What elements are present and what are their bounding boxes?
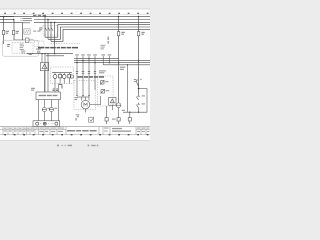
label sensor1 [105, 81, 108, 82]
node hD 127 [127, 64, 128, 65]
heater dashed enclosure [74, 81, 96, 110]
frame bottom column ticks [4, 134, 148, 135]
control unit text [39, 95, 58, 96]
coil group 2 [59, 74, 62, 78]
node feed b [44, 53, 45, 54]
label loop bottom [122, 110, 125, 111]
node s6 [109, 62, 110, 63]
switch S1 [136, 80, 139, 87]
node L1 tap [3, 16, 5, 18]
wire motor PE loop [90, 96, 101, 105]
wire N incoming [0, 21, 23, 23]
terminal strip dashes [40, 123, 54, 125]
wire T2 tail [118, 121, 120, 124]
terminal X2-1 [36, 122, 39, 125]
terminal T3 [128, 118, 131, 121]
label hD corner [120, 67, 125, 70]
control bus hD [103, 64, 150, 66]
wire Q1 pole3 [50, 22, 52, 41]
revision marks [75, 114, 79, 120]
label w1 [75, 54, 79, 55]
label w4 [93, 54, 97, 55]
motor bottom stub [85, 109, 87, 113]
breaker Q1 box [43, 26, 58, 35]
label s5 [101, 54, 105, 55]
lamp H1 tick [42, 109, 46, 111]
label F1 [6, 31, 9, 34]
bus L1 [0, 15, 150, 17]
wire H2 out [50, 112, 52, 121]
wire X1 out2 [43, 100, 45, 108]
terminal X2-2 [43, 122, 46, 125]
page sheet [0, 9, 150, 141]
label s6 [108, 54, 112, 55]
node Q1 L2 [47, 19, 49, 21]
wire Q1 pole1 [44, 16, 46, 37]
wire L1 incoming [0, 16, 14, 18]
node S3 loop [138, 112, 139, 113]
fuse F4 [137, 32, 139, 36]
bus L2 [34, 19, 150, 21]
footer viewer text [57, 145, 98, 147]
lamp H2 [49, 108, 53, 112]
wire T3 tail [129, 121, 131, 124]
node w3 [88, 58, 89, 59]
connector row motor [76, 95, 90, 97]
coil out corner [59, 85, 62, 89]
node feed c [47, 53, 48, 54]
node feed a [41, 53, 42, 54]
drawing frame top border [0, 13, 150, 15]
supply junction enclosure [3, 40, 39, 56]
motor M1 glyph [84, 103, 87, 106]
cable ticks feed [21, 51, 26, 54]
motor lead c [88, 97, 90, 101]
wire loop right [146, 89, 148, 113]
lamp H2 tick [49, 109, 53, 111]
coil group 5 [70, 75, 73, 78]
label Q1 [39, 27, 42, 30]
coil group 3 [62, 75, 66, 79]
label sensors above [99, 70, 106, 73]
connector pins w4 [94, 71, 96, 73]
node Q1 L3 [50, 22, 52, 24]
wire supply horizontal [14, 39, 26, 41]
wire feed lower [27, 53, 74, 55]
wire b drop [44, 54, 46, 92]
sensor sym2 [101, 89, 105, 94]
coil group 1 leads [54, 73, 56, 84]
label S3 [142, 103, 145, 104]
title cells small text [4, 128, 64, 132]
node w2 [82, 60, 83, 61]
node N join [54, 53, 55, 54]
contact S2 [136, 95, 139, 100]
wire drop to F2 [13, 20, 15, 41]
label T2 [112, 119, 116, 120]
legend notes list [21, 18, 33, 23]
coil group 4 [68, 74, 71, 78]
background viewer band [0, 0, 150, 150]
warning triangle [42, 64, 47, 69]
label X1 [31, 88, 35, 91]
wire ctrl drop [127, 65, 129, 112]
frame top column ticks [4, 13, 148, 14]
coil group 3 leads [63, 73, 65, 84]
label S2 [142, 95, 145, 96]
terminal T2 [117, 118, 120, 121]
wire branch1 [118, 16, 120, 103]
module A1 dashed box [34, 41, 44, 47]
caption only-for note [38, 47, 78, 49]
wire nest phase2 [48, 27, 150, 39]
wire nest phase1 [45, 25, 150, 38]
coil group 1 [53, 75, 57, 79]
motor M1 [81, 100, 90, 109]
X1 inlet pins [53, 89, 58, 91]
wire H1 out [43, 112, 45, 121]
wire drop to F1 [3, 16, 5, 44]
limiter stub [111, 105, 113, 110]
socket E10 tick [116, 104, 121, 106]
control bus hC [74, 62, 150, 64]
coil group 2 leads [59, 73, 61, 84]
label F2 [16, 31, 19, 34]
motor lead a [81, 97, 83, 101]
limiter triangle [110, 99, 114, 103]
coil inner bus [52, 72, 72, 74]
wire X1 out4 [57, 100, 59, 121]
breaker Q1 contacts [45, 27, 53, 30]
title drawing name [67, 130, 97, 132]
wire N drop [54, 22, 56, 53]
wire tags 1L1 [33, 31, 40, 32]
caption heater note [78, 76, 105, 78]
node branch2 hB [138, 60, 140, 62]
node Q1 L1 [44, 16, 46, 18]
node L2 tap [13, 19, 15, 21]
label cable [29, 54, 32, 55]
node N drop [54, 22, 56, 24]
wire warn drop [41, 54, 43, 63]
terminal T1 [105, 118, 108, 121]
label M1 [75, 97, 78, 100]
node term3 [129, 112, 130, 113]
wire loop bottom [123, 111, 147, 113]
motor lead b [85, 97, 87, 100]
wire feed lower2 [46, 55, 64, 57]
wire drop N [22, 22, 24, 40]
page top edge [0, 8, 150, 10]
wire sensor stub [106, 106, 108, 118]
title block top line [0, 126, 150, 128]
control bus hB [74, 60, 150, 62]
wire X1 out3 [50, 100, 52, 108]
node branch2 tap [138, 16, 140, 18]
connector pins w3 [88, 71, 90, 73]
drawing frame bottom border [0, 134, 150, 136]
note column supply [20, 44, 24, 50]
control unit X1 box [36, 92, 60, 100]
wire socket tail [118, 108, 120, 118]
bus L3 [34, 21, 150, 23]
note text right mid [101, 45, 106, 50]
wire warn out [44, 71, 46, 92]
label X0 [36, 49, 41, 53]
label sensor2 [106, 90, 109, 91]
X1 inlet pins [53, 89, 58, 91]
coil group 4 leads [68, 73, 70, 84]
label F3 [121, 32, 124, 35]
wire w2 [82, 56, 84, 97]
warning device box B1 [40, 63, 48, 71]
stub s6 [108, 56, 110, 63]
wire Q1 pole2 [47, 20, 49, 40]
cable entry dashed box [12, 43, 33, 54]
label F4 [141, 32, 144, 35]
node branch1 hC [118, 62, 120, 64]
wire loop top [139, 88, 147, 90]
fuse F1 [2, 30, 4, 34]
wire K1 out [54, 84, 56, 93]
contactor dashed box K [51, 67, 74, 84]
label H1 [47, 108, 50, 109]
label supply box [7, 44, 10, 47]
bus labels [33, 15, 46, 16]
title block verticals [3, 127, 146, 135]
title right cells text [104, 128, 149, 132]
node branch1 tap [118, 16, 120, 18]
label H2 [54, 108, 57, 109]
sensor sym1 [100, 80, 104, 85]
wire w4 [94, 56, 96, 90]
wire number marks nest [108, 37, 109, 44]
connector pins w1 [76, 71, 78, 73]
control bus hA [74, 58, 119, 60]
terminal X2-2 cross [44, 123, 46, 125]
wire T1 tail [106, 121, 108, 124]
fuse F3 [117, 32, 119, 36]
node w1 [76, 62, 77, 63]
wire supply horizontal2 [29, 39, 34, 41]
node w4 [94, 62, 95, 63]
fuse F2 [12, 30, 14, 34]
switch main box [26, 38, 30, 42]
wire w3 [88, 56, 90, 97]
wire term3 drop [129, 112, 131, 117]
approval checkbox [89, 117, 94, 122]
wire branch2 [138, 16, 140, 94]
connector pins w2 [82, 71, 84, 73]
motor lead bar [77, 96, 89, 98]
coil out corner [59, 85, 62, 89]
lamp H1 [42, 108, 46, 112]
label w3 [87, 54, 91, 55]
wire w1 [76, 56, 78, 96]
meter P1 [24, 29, 30, 34]
title block mid line right [136, 129, 150, 131]
switch S1 marks [134, 79, 142, 82]
wire c drop [47, 54, 49, 92]
limiter box W2 [109, 98, 116, 106]
dashed panel boundary [51, 43, 81, 45]
sensor dashed box B2 [98, 76, 114, 106]
label w2 [81, 54, 85, 55]
wire S3 tail [138, 108, 140, 112]
wire nest phase3 [51, 29, 150, 41]
contact S3 [136, 103, 139, 108]
wire X1 out1 [37, 100, 39, 121]
stub s5 [102, 56, 104, 65]
page bottom edge [0, 140, 150, 142]
wire L2 incoming [0, 19, 14, 21]
terminal strip X2 box [33, 121, 60, 127]
node S1 out [138, 88, 140, 90]
title block mid line left [0, 129, 66, 131]
socket E10 [116, 103, 121, 108]
wire K2 out [58, 84, 60, 93]
terminal X2-3 [55, 122, 58, 125]
